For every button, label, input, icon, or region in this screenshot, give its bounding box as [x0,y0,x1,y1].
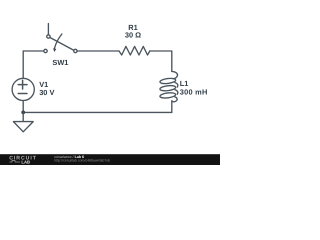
svg-text:LAB: LAB [21,159,30,164]
svg-text:L1: L1 [180,79,189,88]
inductor L1 [160,71,178,101]
wire top-left horizontal (source to switch) [23,50,43,52]
watermark banner [0,154,220,165]
ground node junction dot [21,111,25,115]
wire R1 to top-right corner and down [150,51,172,71]
voltage source V1 [12,78,34,100]
wire top-left vertical (corner to V1 top) [22,51,24,78]
wire inductor bottom to bottom rail [171,101,173,113]
svg-text:SW1: SW1 [52,58,68,67]
wire bottom rail [23,111,172,113]
wire V1 bottom to ground node [22,101,24,112]
CircuitLab logo [9,156,37,165]
switch SW1 [44,24,77,53]
wire switch to R1 [78,50,119,52]
svg-text:30 Ω: 30 Ω [125,31,141,40]
svg-text:30 V: 30 V [39,88,54,97]
svg-text:300 mH: 300 mH [180,88,208,97]
svg-text:http://circuitlab.com/c489uwm5: http://circuitlab.com/c489uwm5b7ob [54,158,110,162]
ground [13,112,33,131]
resistor R1 [119,46,150,55]
